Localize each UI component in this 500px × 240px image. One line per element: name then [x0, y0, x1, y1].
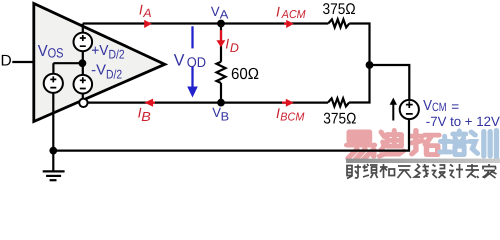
svg-text:B: B — [221, 110, 230, 124]
svg-text:V: V — [38, 43, 48, 60]
svg-text:60Ω: 60Ω — [231, 66, 259, 83]
svg-text:V: V — [211, 4, 220, 19]
svg-text:-7V to + 12V: -7V to + 12V — [426, 114, 500, 129]
svg-text:OD: OD — [187, 54, 206, 70]
svg-text:D: D — [1, 53, 12, 70]
svg-text:-V: -V — [91, 63, 106, 79]
svg-text:ACM: ACM — [281, 9, 306, 21]
svg-text:=: = — [451, 99, 459, 114]
svg-text:B: B — [141, 109, 151, 124]
svg-text:I: I — [276, 3, 280, 19]
svg-text:D/2: D/2 — [109, 48, 125, 62]
svg-text:D/2: D/2 — [106, 67, 122, 81]
svg-text:V: V — [174, 52, 185, 70]
svg-text:OS: OS — [48, 46, 64, 61]
svg-text:I: I — [139, 2, 143, 18]
svg-text:A: A — [220, 7, 229, 21]
svg-text:I: I — [225, 36, 229, 52]
svg-text:CM: CM — [432, 100, 447, 114]
svg-text:+V: +V — [91, 43, 109, 59]
svg-text:V: V — [212, 105, 221, 120]
svg-text:375Ω: 375Ω — [323, 1, 356, 18]
svg-text:A: A — [142, 6, 151, 20]
svg-text:V: V — [423, 98, 432, 114]
svg-text:BCM: BCM — [280, 111, 304, 123]
svg-text:375Ω: 375Ω — [323, 111, 356, 128]
svg-text:D: D — [230, 41, 239, 55]
